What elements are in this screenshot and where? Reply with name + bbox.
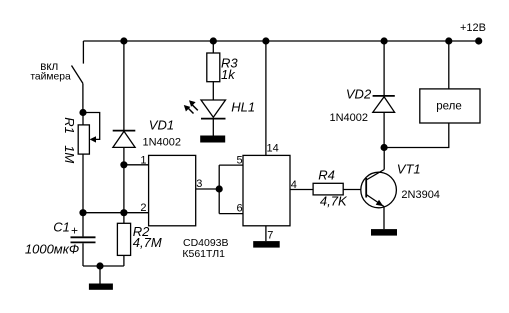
svg-text:1N4002: 1N4002 [330, 112, 369, 124]
svg-text:VD1: VD1 [149, 118, 174, 133]
svg-text:6: 6 [236, 203, 242, 215]
svg-text:R1: R1 [62, 117, 77, 134]
svg-text:HL1: HL1 [231, 100, 255, 115]
svg-text:+12В: +12В [460, 22, 486, 34]
svg-text:VT1: VT1 [397, 162, 421, 177]
svg-text:1N4002: 1N4002 [143, 137, 182, 149]
svg-text:5: 5 [236, 154, 242, 166]
svg-text:+: + [71, 223, 78, 237]
svg-text:4: 4 [291, 179, 297, 191]
svg-text:7: 7 [267, 230, 273, 242]
svg-text:К561ТЛ1: К561ТЛ1 [182, 248, 225, 260]
svg-text:4,7М: 4,7М [133, 235, 162, 250]
svg-text:1k: 1k [221, 67, 236, 82]
svg-text:R4: R4 [318, 168, 335, 183]
svg-text:VD2: VD2 [346, 87, 372, 102]
svg-text:2N3904: 2N3904 [401, 189, 440, 201]
svg-text:реле: реле [436, 101, 462, 113]
svg-text:C1: C1 [53, 220, 70, 235]
svg-text:3: 3 [196, 178, 202, 190]
svg-text:CD4093В: CD4093В [183, 237, 229, 249]
svg-text:1M: 1M [62, 145, 77, 163]
svg-text:таймера: таймера [30, 72, 71, 83]
svg-text:14: 14 [267, 142, 279, 154]
svg-text:1: 1 [140, 154, 146, 166]
svg-text:1000мкФ: 1000мкФ [25, 241, 79, 256]
svg-text:4,7K: 4,7K [320, 193, 348, 208]
svg-text:2: 2 [140, 202, 146, 214]
